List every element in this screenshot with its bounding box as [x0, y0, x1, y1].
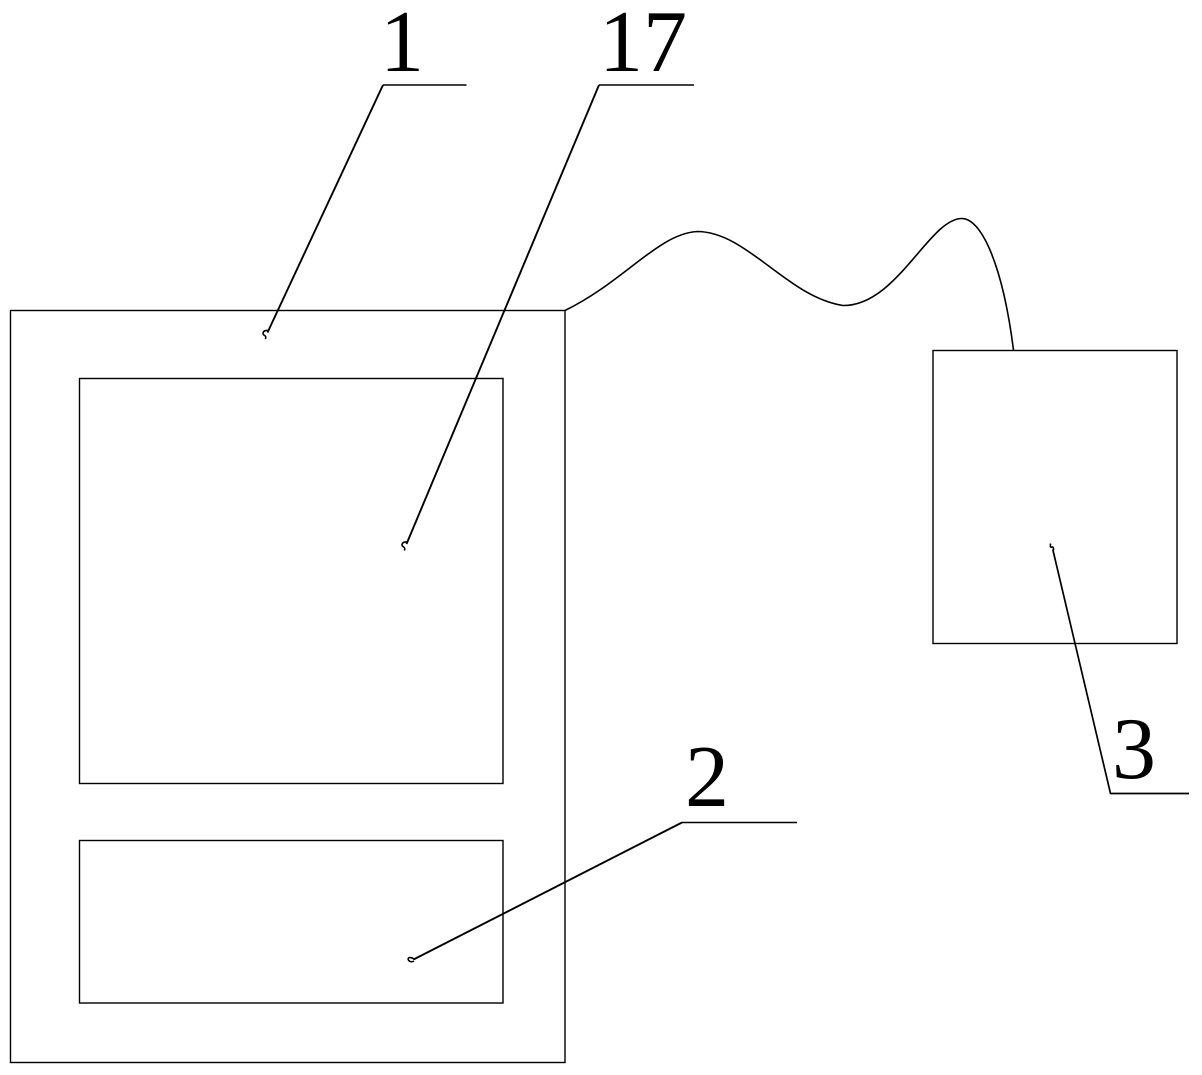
cable (wavy connection line)	[565, 219, 1014, 351]
label 3 leader hook	[1050, 544, 1053, 552]
label 17 underline	[599, 84, 694, 86]
external unit 3 (right box)	[933, 351, 1177, 644]
label 2 leader hook	[408, 958, 414, 962]
label 1 underline	[383, 84, 467, 86]
label 2 leader line	[414, 823, 683, 960]
label 2 underline	[682, 822, 797, 824]
label 3 leader line (diagonal + horizontal)	[1053, 550, 1189, 794]
label 17 leader hook	[402, 542, 407, 551]
svg-text:1: 1	[380, 0, 424, 91]
label 17 leader line	[407, 85, 600, 544]
svg-text:2: 2	[685, 729, 729, 826]
svg-text:17: 17	[599, 0, 687, 91]
display panel 17 (upper inner box)	[80, 379, 504, 784]
device housing (outer box)	[11, 311, 566, 1063]
svg-text:3: 3	[1112, 701, 1156, 798]
label 1 leader hook	[263, 330, 268, 339]
label 1 leader line	[268, 85, 384, 333]
control panel 2 (lower inner box)	[80, 841, 504, 1004]
